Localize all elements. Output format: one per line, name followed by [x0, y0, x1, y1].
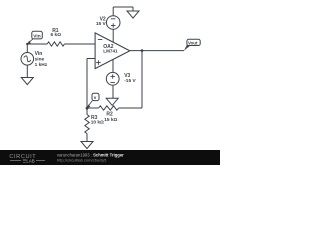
svg-text:☰LAB: ☰LAB: [23, 159, 35, 164]
svg-text:10 kΩ: 10 kΩ: [91, 120, 104, 126]
svg-text:R2: R2: [106, 112, 113, 118]
svg-text:sine: sine: [35, 57, 45, 63]
svg-text:15 V: 15 V: [96, 21, 107, 27]
svg-text:15 kΩ: 15 kΩ: [104, 117, 117, 123]
svg-text:-15 V: -15 V: [124, 78, 136, 84]
svg-text:LM741: LM741: [103, 48, 118, 53]
svg-text:http://circuitlab.com/c6ucty5: http://circuitlab.com/c6ucty5: [57, 158, 107, 163]
svg-text:6 kΩ: 6 kΩ: [51, 32, 62, 38]
svg-text:Vin: Vin: [33, 33, 40, 39]
svg-text:Vin: Vin: [35, 51, 43, 57]
svg-text:1 kHz: 1 kHz: [35, 62, 48, 68]
svg-text:v: v: [94, 95, 97, 100]
svg-text:Vout: Vout: [188, 40, 198, 45]
